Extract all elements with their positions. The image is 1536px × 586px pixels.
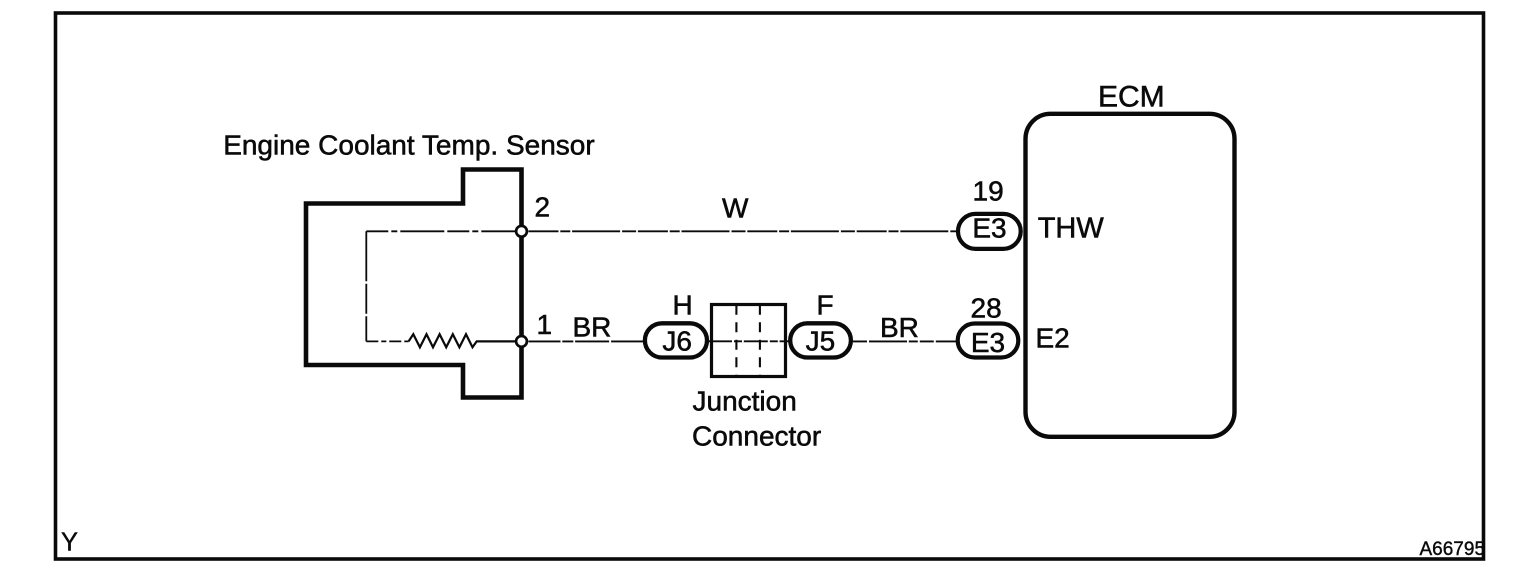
label: Engine Coolant Temp. Sensor [223, 130, 595, 161]
svg-text:BR: BR [880, 312, 919, 343]
page code Y [61, 528, 78, 556]
resistor (sensor thermistor zigzag) [409, 334, 515, 347]
connector label H [673, 289, 693, 320]
svg-text:Y: Y [61, 528, 78, 556]
internal dashed bottom wire of sensor [366, 340, 408, 342]
svg-text:E2: E2 [1036, 323, 1070, 354]
svg-text:J5: J5 [806, 326, 836, 357]
svg-text:2: 2 [535, 191, 551, 222]
pin number 28 [971, 292, 1002, 323]
svg-text:F: F [817, 289, 834, 320]
wire W: pin 2 to ECM terminal E3 (19) [529, 230, 957, 232]
junction connector terminal J6 (oval) [645, 323, 707, 357]
junction connector terminal J5 (oval) [790, 323, 851, 357]
wire color label BR (left) [573, 312, 612, 343]
pin label 1 [537, 309, 553, 340]
junction connector caption line 1 [693, 386, 797, 417]
svg-text:H: H [673, 289, 693, 320]
svg-text:E3: E3 [972, 213, 1006, 244]
svg-text:E3: E3 [971, 327, 1005, 358]
svg-text:1: 1 [537, 309, 553, 340]
pin label 2 [535, 191, 551, 222]
connector label F [817, 289, 834, 320]
junction connector internal dashed divider (right) [759, 305, 761, 377]
ECM label [1098, 81, 1165, 114]
svg-text:A66795: A66795 [1420, 539, 1486, 560]
svg-text:Junction: Junction [693, 386, 797, 417]
svg-text:Connector: Connector [692, 421, 821, 452]
wire BR: pin 1 to junction connector J6 [529, 340, 647, 342]
pin 1 node (terminal circle) [516, 336, 527, 347]
junction connector caption line 2 [692, 421, 821, 452]
ECM pin name E2 [1036, 323, 1070, 354]
svg-text:19: 19 [973, 176, 1004, 207]
svg-text:Engine Coolant Temp. Sensor: Engine Coolant Temp. Sensor [223, 130, 595, 161]
svg-text:ECM: ECM [1098, 81, 1165, 114]
svg-text:THW: THW [1038, 212, 1105, 244]
svg-text:W: W [722, 193, 749, 224]
figure number A66795 [1420, 539, 1486, 560]
wire color label BR (right) [880, 312, 919, 343]
engine coolant temp sensor outline [306, 170, 522, 398]
internal dashed left wire of sensor [365, 231, 367, 341]
wire through junction connector [708, 340, 790, 342]
wire color label W [722, 193, 749, 224]
internal dashed top wire of sensor [366, 230, 516, 232]
svg-text:J6: J6 [662, 326, 692, 357]
wire BR: J5 to ECM terminal E3 (28) [853, 340, 957, 342]
junction connector internal dashed divider (left) [735, 305, 737, 377]
ECM box [1026, 114, 1235, 437]
pin 2 node (terminal circle) [516, 226, 527, 237]
ECM pin name THW [1038, 212, 1105, 244]
ECM terminal E3 pin 19 (oval) [958, 213, 1021, 249]
svg-text:BR: BR [573, 312, 612, 343]
pin number 19 [973, 176, 1004, 207]
junction connector box [712, 305, 786, 377]
ECM terminal E3 pin 28 (oval) [958, 324, 1019, 358]
svg-text:28: 28 [971, 292, 1002, 323]
